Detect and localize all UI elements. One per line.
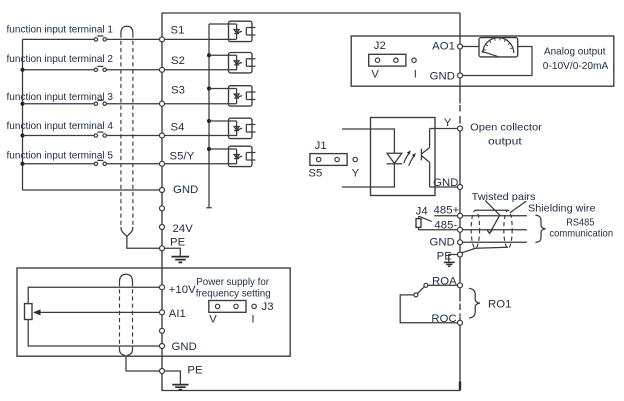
terminal 24V — [160, 225, 165, 230]
svg-text:Y: Y — [444, 117, 452, 129]
terminal 485+ — [458, 213, 463, 218]
svg-text:J2: J2 — [374, 40, 386, 52]
open collector output optocoupler box — [371, 118, 436, 196]
terminal GND upper — [160, 188, 165, 193]
phototransistor Q1 — [421, 129, 429, 187]
wire collector to Y terminal — [430, 128, 458, 131]
terminal ROC — [458, 320, 463, 325]
lower terminal box (analog input) — [17, 268, 290, 356]
wire S3 row — [23, 103, 237, 105]
wire GND row — [23, 189, 160, 191]
terminating resistor J4 — [416, 216, 432, 230]
svg-text:GND: GND — [433, 177, 458, 189]
svg-text:S3: S3 — [171, 85, 185, 97]
svg-text:Analog output: Analog output — [544, 45, 606, 57]
RS485 brace — [535, 215, 545, 242]
switch K1 — [94, 36, 106, 41]
terminal S4 — [160, 133, 165, 138]
wire GND 485 — [463, 241, 527, 243]
svg-text:communication: communication — [549, 228, 613, 240]
junction dot S2 — [21, 68, 25, 72]
bus dashed segment 1 — [459, 105, 461, 124]
jumper J2 — [369, 40, 417, 81]
wire S4 row — [23, 135, 237, 137]
wire S1 row — [23, 38, 237, 40]
lower cable shield drain to PE — [126, 357, 159, 371]
analog output box — [351, 36, 614, 86]
switch K3 — [94, 100, 106, 105]
svg-text:J3: J3 — [262, 301, 274, 313]
LED input wires — [342, 129, 395, 153]
terminal AI1 — [160, 310, 165, 315]
junction dot S4 — [21, 134, 25, 138]
light arrows — [404, 150, 416, 165]
svg-text:I: I — [251, 314, 254, 326]
svg-text:+10V: +10V — [169, 284, 196, 296]
shielding wire leader line — [510, 201, 526, 213]
svg-text:GND: GND — [173, 184, 198, 196]
optocoupler U1 (S1) — [209, 21, 256, 41]
RO1 brace — [469, 288, 480, 318]
RS485 cable shield cylinder — [471, 210, 512, 248]
terminal +10V — [160, 285, 165, 290]
svg-text:24V: 24V — [173, 223, 194, 235]
junction dot S5 — [21, 162, 25, 166]
shield drain wire 485 — [462, 247, 508, 253]
svg-text:0-10V/0-20mA: 0-10V/0-20mA — [543, 60, 609, 72]
svg-text:S2: S2 — [171, 55, 185, 67]
svg-text:Y: Y — [352, 168, 360, 180]
svg-text:frequency setting: frequency setting — [196, 288, 271, 300]
svg-text:output: output — [488, 136, 522, 148]
jumper J3 — [209, 301, 274, 326]
terminal GND 485 — [458, 240, 463, 245]
relay contact RO1 — [400, 283, 457, 323]
wire AO1 to meter — [463, 46, 479, 48]
meter M (analog output) — [479, 38, 518, 57]
left common bus — [22, 39, 24, 190]
opto bus junction dot S3 — [207, 87, 211, 91]
junction dot S3 — [21, 102, 25, 106]
svg-text:function input terminal 1: function input terminal 1 — [7, 25, 114, 36]
terminal PE 485 — [458, 252, 463, 257]
optocoupler U4 (S4) — [209, 118, 256, 138]
drive main box — [162, 13, 460, 391]
svg-text:GND: GND — [172, 341, 197, 353]
svg-text:Open collector: Open collector — [470, 122, 542, 134]
wire S5 row — [23, 163, 237, 165]
opto bus junction dot S4 — [207, 119, 211, 123]
svg-text:Shielding wire: Shielding wire — [528, 203, 596, 215]
terminal spare upper — [160, 206, 165, 211]
terminal spare lower — [160, 328, 165, 333]
LED D1 — [387, 153, 403, 164]
opto bus junction dot S2 — [207, 53, 211, 57]
bus thick segment bottom — [459, 382, 461, 391]
svg-text:AO1: AO1 — [432, 41, 455, 53]
wire 485+ — [434, 215, 527, 217]
terminal GND opto — [458, 185, 463, 190]
shielded cable upper — [121, 26, 133, 236]
shielded cable lower — [120, 274, 133, 356]
terminal GND lower — [160, 344, 165, 349]
terminal S3 — [160, 101, 165, 106]
svg-text:RO1: RO1 — [488, 299, 512, 311]
svg-text:V: V — [371, 68, 379, 80]
svg-text:V: V — [209, 314, 217, 326]
terminal S2 — [160, 67, 165, 72]
PE ground symbol 485 — [444, 255, 457, 267]
wire 485- — [419, 229, 527, 231]
opto bus junction dot S5 — [207, 147, 211, 151]
terminal S5/Y — [160, 161, 165, 166]
bus dashed segment 2 — [459, 304, 461, 317]
terminal PE upper — [160, 246, 165, 251]
svg-text:I: I — [414, 68, 417, 80]
svg-text:S5: S5 — [308, 167, 322, 179]
jumper J1 — [308, 140, 359, 180]
svg-text:J4: J4 — [416, 206, 428, 218]
svg-text:S5/Y: S5/Y — [170, 151, 195, 163]
internal +24V bus for optocouplers — [206, 24, 211, 208]
svg-text:PE: PE — [437, 250, 453, 262]
cable shield drain wire to PE — [127, 237, 159, 249]
PE ground symbol lower — [165, 371, 189, 390]
svg-text:GND: GND — [430, 71, 455, 83]
svg-text:Power supply for: Power supply for — [196, 276, 269, 288]
twisted pairs leader line — [485, 200, 500, 233]
svg-text:485+: 485+ — [434, 204, 460, 216]
svg-text:PE: PE — [187, 365, 203, 377]
switch K2 — [94, 66, 106, 71]
PE ground symbol upper — [165, 248, 189, 262]
optocoupler U5 (S5) — [209, 146, 256, 166]
terminal Y — [458, 126, 463, 131]
terminal PE lower — [160, 369, 165, 374]
terminal S1 — [160, 37, 165, 42]
potentiometer RP — [25, 287, 160, 346]
drive box right edge bus — [459, 13, 461, 391]
switch K5 — [94, 160, 106, 165]
svg-text:Twisted pairs: Twisted pairs — [472, 191, 536, 203]
svg-text:ROC: ROC — [431, 313, 456, 325]
switch K4 — [94, 132, 106, 137]
terminal 485- — [458, 227, 463, 232]
svg-text:GND: GND — [429, 237, 454, 249]
wire emitter to GND terminal — [430, 186, 458, 188]
optocoupler U2 (S2) — [209, 53, 256, 73]
svg-text:PE: PE — [170, 236, 186, 248]
terminal GND analog — [458, 73, 463, 78]
svg-text:S4: S4 — [171, 121, 185, 133]
wire S2 row — [23, 69, 237, 71]
wire meter to GND — [463, 47, 532, 76]
svg-text:J1: J1 — [315, 140, 327, 152]
terminal AO1 — [458, 44, 463, 49]
svg-text:AI1: AI1 — [169, 308, 186, 320]
terminal ROA — [458, 283, 463, 288]
optocoupler U3 (S3) — [209, 86, 256, 106]
svg-text:RS485: RS485 — [566, 216, 594, 228]
svg-text:S1: S1 — [171, 25, 185, 37]
